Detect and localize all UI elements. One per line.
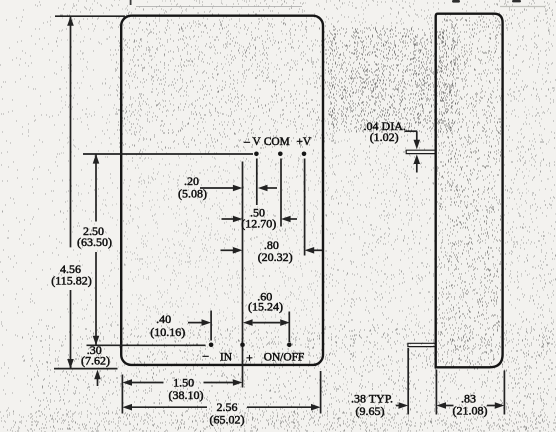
pin COM	[278, 152, 283, 157]
svg-text:(7.62): (7.62)	[81, 354, 110, 368]
scan remnant marks	[130, 0, 132, 5]
extension line COM pin	[280, 159, 282, 227]
svg-text:– V: – V	[243, 136, 261, 148]
svg-text:(12.70): (12.70)	[241, 217, 276, 231]
extension line right edge (bottom)	[320, 371, 322, 414]
extension line pin tip (side)	[407, 348, 409, 415]
extension line top pin row	[83, 153, 253, 155]
svg-text:.40: .40	[156, 312, 171, 326]
svg-text:(1.02): (1.02)	[370, 130, 399, 144]
dimension .40 (10.16)	[188, 322, 202, 324]
dimension 4.56 (115.82) overall height	[70, 16, 72, 247]
svg-text:(21.08): (21.08)	[453, 403, 488, 417]
dimension .50 (12.70)	[222, 218, 235, 220]
extension line -V pin	[256, 159, 258, 206]
svg-text:+V: +V	[296, 136, 311, 148]
pin (side view, lower)	[408, 343, 435, 346]
svg-text:1.50: 1.50	[173, 375, 194, 389]
svg-text:(38.10): (38.10)	[169, 388, 204, 402]
pin -V	[254, 152, 259, 157]
extension line top edge	[55, 15, 125, 17]
centerline through + pin	[242, 162, 244, 388]
dimension .20 (5.08)	[200, 187, 234, 189]
svg-text:COM: COM	[264, 136, 290, 148]
svg-text:(5.08): (5.08)	[178, 186, 207, 200]
svg-text:(9.65): (9.65)	[356, 404, 385, 418]
extension line - pin	[210, 311, 212, 341]
pin ON/OFF	[287, 343, 292, 348]
dimension 2.56 (65.02)	[122, 404, 132, 411]
extension line left edge (bottom)	[121, 375, 123, 414]
svg-text:+: +	[246, 353, 252, 365]
svg-text:(20.32): (20.32)	[258, 250, 293, 264]
dimension .60 (15.24)	[243, 319, 253, 326]
pin - (input)	[209, 343, 214, 348]
svg-text:(15.24): (15.24)	[248, 300, 283, 314]
svg-text:IN: IN	[220, 351, 232, 363]
front view package outline	[121, 16, 323, 365]
svg-text:(115.82): (115.82)	[51, 273, 92, 287]
svg-text:(63.50): (63.50)	[77, 235, 112, 249]
svg-text:(10.16): (10.16)	[150, 325, 185, 339]
side view package outline	[436, 14, 503, 368]
dimension 2.50 (63.50) pin row spacing	[95, 154, 97, 222]
extension line side body left edge	[435, 370, 437, 415]
dimension .83 (21.08)	[436, 402, 446, 409]
dimension 1.50 (38.10)	[122, 379, 132, 386]
svg-text:(65.02): (65.02)	[210, 412, 245, 426]
extension line ON/OFF pin	[288, 312, 290, 343]
extension line +V pin	[304, 159, 306, 256]
svg-text:ON/OFF: ON/OFF	[264, 351, 305, 363]
pin (side view, upper)	[406, 150, 434, 153]
pin +V	[302, 152, 307, 157]
pin + (input)	[240, 343, 245, 348]
dimension .80 (20.32)	[221, 249, 235, 251]
svg-text:–: –	[202, 350, 209, 362]
extension line bottom pin row	[87, 344, 206, 346]
extension line side body right edge	[503, 371, 505, 415]
extension line bottom edge	[54, 368, 118, 370]
